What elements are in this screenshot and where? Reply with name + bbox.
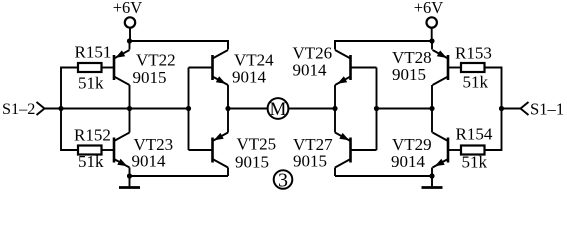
wire VT23 emitter to ground	[129, 168, 131, 177]
svg-text:51k: 51k	[462, 153, 488, 172]
svg-text:S1–1: S1–1	[530, 100, 564, 119]
svg-text:51k: 51k	[78, 152, 104, 171]
wire VT22 emitter to +6V rail	[129, 41, 131, 50]
transistor VT28 (9015 PNP)	[433, 50, 449, 85]
wire VT25 collector down to bottom rail	[227, 168, 229, 177]
wire to VT26 base	[351, 67, 377, 69]
wire top-left supply rail	[130, 41, 229, 50]
resistor R154 value 51k	[462, 153, 488, 172]
wire VT29 emitter to ground	[431, 168, 433, 177]
wire VT24 collector to top rail	[227, 41, 229, 50]
svg-text:M: M	[270, 99, 287, 120]
transistor VT25 label	[235, 135, 276, 172]
transistor VT28 label	[392, 48, 432, 84]
node VT24/VT25 base junction dot	[186, 106, 191, 111]
transistor VT23 (9014 NPN)	[114, 133, 130, 168]
ground symbol right	[422, 176, 443, 188]
wire VT26 emitter down to output rail	[334, 85, 336, 109]
wire VT29 collector up to mid rail	[431, 109, 433, 133]
resistor R153 label	[455, 44, 492, 63]
wire to VT27 base	[351, 149, 377, 151]
wire VT28 collector down to mid rail	[431, 85, 433, 109]
transistor VT22 (9015 PNP)	[114, 50, 130, 85]
svg-text:9014: 9014	[232, 68, 267, 87]
wire from +6V left terminal down to top rail	[129, 28, 131, 41]
svg-text:9014: 9014	[293, 61, 328, 80]
resistor R151 body	[78, 63, 102, 72]
power +6V terminal (right) circle	[427, 17, 437, 27]
svg-text:VT25: VT25	[237, 135, 277, 154]
svg-text:S1–2: S1–2	[2, 100, 35, 118]
svg-text:51k: 51k	[463, 73, 489, 92]
svg-text:9014: 9014	[132, 152, 167, 171]
connector S1-2 chevron	[37, 102, 45, 115]
transistor VT26 label	[293, 44, 333, 80]
wire bottom-right rail VT27 collector to ground	[335, 175, 432, 177]
resistor R152 value 51k	[78, 152, 104, 171]
transistor VT27 (9015 PNP)	[335, 133, 351, 168]
svg-text:R153: R153	[455, 44, 492, 63]
transistor VT26 (9014 NPN)	[335, 50, 351, 85]
node left output junction dot	[225, 106, 230, 111]
resistor R152 label	[74, 126, 111, 145]
svg-text:9015: 9015	[392, 65, 426, 84]
power +6V terminal (right) label	[414, 0, 444, 17]
wire right bias column R153/R154 to S1-1	[485, 68, 502, 151]
resistor R153 value 51k	[463, 73, 489, 92]
wire VT26/VT27 base column	[376, 68, 378, 151]
power +6V terminal (left) circle	[125, 17, 135, 27]
wire VT24/VT25 base column	[188, 68, 190, 151]
transistor VT22 label	[133, 51, 176, 88]
connector S1-1 chevron	[521, 102, 529, 115]
connector S1-2 label	[2, 100, 35, 118]
wire VT23 collector up to mid rail	[129, 109, 131, 133]
transistor VT29 (9014 NPN)	[433, 133, 449, 168]
wire VT25 emitter up to output rail	[227, 109, 229, 133]
wire R152 to VT23 base	[102, 149, 115, 151]
svg-text:+6V: +6V	[113, 0, 143, 17]
wire R151 to VT22 base	[102, 67, 115, 69]
resistor R154 label	[456, 125, 493, 144]
resistor R152 body	[78, 146, 102, 155]
wire VT27 collector down to bottom rail	[334, 168, 336, 177]
ground symbol left	[119, 176, 140, 188]
wire to VT25 base	[189, 149, 213, 151]
wire mid-left rail from S1-2 to VT24/VT25 base column	[45, 108, 189, 110]
node VT22/VT23 collectors junction dot	[127, 106, 132, 111]
resistor R154 body	[461, 146, 485, 155]
node S1-2 junction dot	[58, 106, 63, 111]
wire VT28 emitter to +6V rail	[431, 41, 433, 50]
connector S1-1 label	[530, 100, 564, 119]
wire S1-1 stub	[502, 108, 521, 110]
svg-text:+6V: +6V	[414, 0, 444, 17]
node VT28/VT29 collectors junction dot	[429, 106, 434, 111]
transistor VT29 label	[391, 135, 432, 171]
transistor VT25 (9015 PNP)	[213, 133, 229, 168]
node: +6V left junction dot	[127, 38, 132, 43]
figure number circled 3	[274, 169, 293, 191]
wire VT29 base to R154	[448, 149, 461, 151]
svg-text:9015: 9015	[235, 153, 269, 172]
transistor VT24 (9014 NPN)	[213, 50, 229, 85]
wire left bias column to R151 and R152	[61, 68, 78, 151]
node ground-left junction dot	[127, 173, 132, 178]
node ground-right junction dot	[429, 173, 434, 178]
motor M	[268, 98, 289, 120]
svg-text:3: 3	[278, 169, 288, 191]
resistor R151 label	[75, 43, 112, 62]
wire to VT24 base	[189, 67, 213, 69]
wire VT27 emitter up to output rail	[334, 109, 336, 133]
power +6V terminal (left) label	[113, 0, 143, 17]
svg-text:9015: 9015	[133, 68, 167, 87]
resistor R153 body	[461, 63, 485, 72]
node VT26/VT27 base junction dot	[374, 106, 379, 111]
svg-text:R154: R154	[456, 125, 493, 144]
svg-text:9014: 9014	[391, 152, 426, 171]
node S1-1 junction dot	[499, 106, 504, 111]
wire left output to motor	[228, 108, 268, 110]
wire VT22 collector down to mid rail	[129, 85, 131, 109]
svg-text:R151: R151	[75, 43, 112, 62]
svg-text:VT22: VT22	[136, 51, 176, 70]
wire top-right supply rail	[335, 41, 432, 50]
transistor VT27 label	[293, 135, 333, 171]
wire VT28 base to R153	[448, 67, 461, 69]
svg-text:R152: R152	[74, 126, 111, 145]
transistor VT24 label	[232, 51, 274, 87]
wire motor to right output node	[288, 108, 335, 110]
node right output junction dot	[332, 106, 337, 111]
wire VT24 emitter down to output rail	[227, 85, 229, 109]
wire bottom-left rail VT23 emitter to VT25 collector	[130, 175, 229, 177]
svg-text:51k: 51k	[78, 74, 104, 93]
svg-text:9015: 9015	[293, 152, 327, 171]
resistor R151 value 51k	[78, 74, 104, 93]
transistor VT23 label	[132, 135, 174, 171]
wire from +6V right terminal down to top rail	[431, 28, 433, 41]
wire VT26 collector to top rail	[334, 41, 336, 50]
wire base column to VT28/VT29 collectors	[377, 108, 433, 110]
node: +6V right junction dot	[429, 38, 434, 43]
